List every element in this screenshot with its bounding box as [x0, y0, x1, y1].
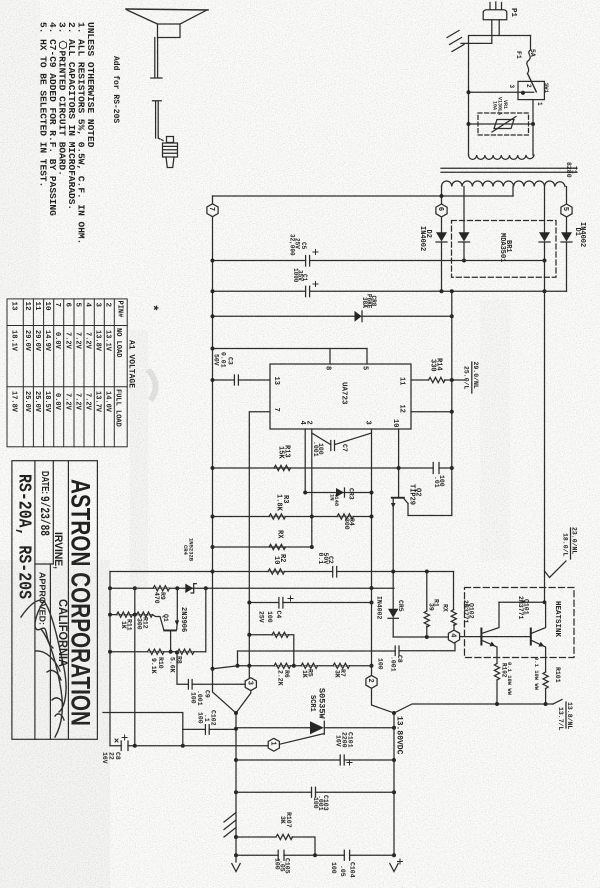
- fuse F1: [527, 36, 531, 74]
- wire rail to node 7: [213, 195, 514, 197]
- capacitor C1 1000/35V: [306, 286, 310, 297]
- node 3 hexagon: [245, 678, 256, 691]
- plug P1: [483, 2, 507, 43]
- earth ground (AC): [447, 31, 492, 52]
- wire R8 right vertical x=205.8: [205, 588, 207, 651]
- capacitor C4 100/25V: [279, 598, 283, 609]
- junction dot pin10/R13: [397, 466, 401, 470]
- junction dots VR1: [467, 122, 471, 126]
- junction dot collectors/23V: [543, 600, 547, 604]
- wire C3 line to pin 13: [213, 379, 271, 381]
- wire C4 line: [249, 602, 371, 604]
- wire R11/R12 row: [110, 615, 164, 630]
- junction dots BR1 outputs: [462, 259, 466, 263]
- node 7 hexagon: [207, 196, 218, 217]
- wire node3 to junction: [236, 691, 251, 713]
- wire R9/CR4 row: [110, 587, 394, 589]
- leader 23V label jog: [545, 561, 567, 578]
- junction dots on left spine: [211, 259, 215, 263]
- capacitor C103 .001/100: [312, 787, 316, 797]
- transistor Q102 2N3771: [480, 602, 499, 663]
- capacitor C7 .001/100 with leads: [312, 433, 372, 451]
- node 6 hexagon: [436, 204, 447, 217]
- resistor R5 1K: [301, 663, 318, 668]
- wire CR5 to node 4: [393, 636, 448, 638]
- resistor R10 9.1K: [148, 649, 164, 654]
- wire C6a/hex1 line y=745.8: [110, 745, 267, 747]
- wire pin8 stub: [329, 349, 331, 365]
- diode CR5 1N4002: [388, 609, 398, 637]
- resistor R6b 2.2K: [274, 663, 291, 668]
- capacitor C6 .01/100: [433, 463, 439, 474]
- wire R5/R7 row: [238, 665, 372, 667]
- scan smudge: [150, 372, 156, 398]
- output arrow right: [390, 864, 398, 872]
- wire pin 2 stub: [311, 429, 313, 547]
- note-3 hexagon symbol: [60, 41, 67, 49]
- diode BR1-b: [539, 187, 550, 243]
- wire pin 11 line with R14: [411, 379, 452, 381]
- junction dots x=394: [392, 711, 396, 715]
- wire bottom rail: [236, 854, 394, 856]
- transformer T1 core: [441, 168, 577, 172]
- node 1 hexagon: [267, 738, 279, 751]
- junction dots CR4 row: [108, 586, 112, 590]
- transistor Q101 2N3771: [530, 602, 546, 672]
- wire lower-left vertical x=236: [235, 713, 237, 862]
- wire C1 rail: [213, 290, 567, 292]
- wire output rail diag: [394, 704, 553, 713]
- resistor R11 1K: [117, 612, 133, 617]
- wire secondary left tap: [441, 187, 443, 205]
- wire leader 29.0/NL: [452, 379, 465, 381]
- transistor Q1 2N3906: [163, 588, 179, 651]
- resistor R13 15K: [274, 465, 291, 470]
- resistor R102 0.1 10W WW (vertical): [494, 664, 499, 707]
- wire pin 10 / Q2 base: [398, 429, 400, 497]
- wire spine link to R-row: [213, 666, 238, 669]
- junction dot RX/pin2: [310, 545, 314, 549]
- transformer T1 primary winding: [469, 124, 535, 159]
- wire pin5 stub: [366, 349, 368, 365]
- diode CR3 1N4148: [303, 488, 373, 497]
- capacitor C101 2200/16V: [340, 755, 344, 765]
- wire pins 8-5 strap rail: [213, 348, 368, 350]
- junction dots R11 row: [108, 613, 112, 617]
- capacitor C102 .1/100: [205, 725, 209, 735]
- wire C8 line: [238, 643, 456, 651]
- capacitor C9 .001/100: [188, 680, 192, 690]
- wire R2 rail: [110, 571, 454, 573]
- leader 13.8V label: [553, 700, 562, 705]
- resistor R1 39 (vertical): [424, 572, 429, 640]
- heatsink dashed box: [465, 588, 575, 658]
- capacitor C105 .05/100: [278, 850, 284, 860]
- junction dots R2 rail: [391, 570, 395, 574]
- output arrow left: [232, 864, 240, 872]
- title block border: [12, 461, 98, 740]
- wire C101 rail: [236, 759, 394, 761]
- resistor R9 470: [153, 586, 169, 591]
- transformer T1 secondary winding: [441, 181, 564, 187]
- wire R10/R8 row: [110, 651, 206, 653]
- wire output vertical x=394: [393, 713, 395, 855]
- wire CR8 rail: [213, 315, 452, 317]
- wire pin 3 stub: [371, 429, 373, 588]
- scan noise overlay: [0, 0, 1, 1]
- op-amp regulator U1 UA723 body: [270, 364, 411, 429]
- wire spine elbow to lower junction: [213, 669, 237, 713]
- voltage table A1 grid: [7, 299, 127, 447]
- wire AC loop: [469, 36, 531, 156]
- wire pin 7 line: [249, 412, 270, 678]
- resistor R12 300: [137, 612, 153, 617]
- node 4 hexagon: [448, 630, 459, 643]
- thyristor SCR1 S0535W: [236, 721, 394, 744]
- resistor R2 10: [268, 569, 285, 574]
- resistor R107 3K: [276, 834, 293, 839]
- resistor R7 3K: [333, 663, 350, 668]
- polarity plus marks: [115, 250, 403, 865]
- wire C103 rail: [236, 791, 394, 793]
- wire Q2 emitter down: [392, 509, 394, 609]
- varistor VR1: [478, 113, 529, 135]
- junction dots R10 row: [108, 650, 112, 654]
- capacitor C104 .05/100: [344, 850, 349, 860]
- wire R13 rail: [213, 467, 453, 469]
- transistor Q2 TIP29: [391, 497, 408, 509]
- junction dots 745 line: [133, 744, 137, 748]
- fraction bar 23.0/NL: [570, 528, 572, 559]
- capacitor C3 0.01/50V: [234, 375, 238, 385]
- wire 23V unregulated vertical: [544, 242, 546, 602]
- wire RX rail: [213, 546, 312, 548]
- wire stub line y=712.5: [103, 713, 183, 730]
- wire R6 row: [249, 635, 293, 666]
- diode CR8 P6KE/38A transient suppressor: [355, 311, 363, 322]
- wire row link vertical: [237, 651, 239, 666]
- wire C5 rail: [213, 260, 545, 262]
- switch SW1: [467, 74, 545, 125]
- chassis ground hatch: [224, 813, 236, 838]
- approved signature scrawl: [21, 600, 66, 737]
- wire left branch vertical x=110: [109, 572, 111, 746]
- wire C9 line: [177, 652, 245, 684]
- capacitor C2 0.1/50V: [333, 567, 337, 578]
- wire pin 4 stub: [304, 429, 306, 493]
- resistor R107 3K row: [236, 837, 315, 855]
- wire pin 12 line: [411, 411, 452, 413]
- node 2 hexagon: [366, 675, 377, 688]
- wire R3 rail: [213, 516, 372, 518]
- wire C102 line: [183, 728, 236, 730]
- junction dot R107 corner: [313, 853, 317, 857]
- junction dots R3 rail: [310, 515, 314, 519]
- wire VR1 rail: [469, 123, 534, 125]
- wire C102 riser: [182, 729, 184, 745]
- junction dots x=236: [234, 711, 238, 715]
- diode D2 1N4002: [436, 217, 447, 291]
- resistor R8 5.6K: [178, 649, 194, 654]
- resistor R6 2.2K: [272, 632, 289, 637]
- fraction bar 13.8/NL: [565, 702, 567, 728]
- bridge rectifier BR1 MDA3501 dashed box: [452, 221, 557, 278]
- zener diode CR4 1N5232B: [185, 584, 196, 593]
- fraction bar 29.0/NL: [471, 362, 473, 393]
- resistor RX: [269, 544, 286, 549]
- wire secondary center tap: [512, 187, 514, 197]
- wire node4 to driver bases: [460, 636, 531, 638]
- node 5 hexagon: [561, 187, 572, 217]
- wire R11 feed vertical x=134.8: [134, 588, 136, 746]
- resistor RX2 (vertical, to node 4): [451, 572, 456, 631]
- microphone plug connector: [153, 101, 178, 168]
- diode D1 1N4002: [561, 217, 572, 291]
- wire left spine x=212.5: [212, 217, 214, 669]
- capacitor C8 .001/100: [395, 646, 399, 656]
- capacitor C5 32,000/25V: [306, 256, 310, 267]
- resistor R101 0.1 10W WW (vertical): [543, 672, 548, 706]
- wire collectors tie: [499, 601, 546, 603]
- junction dots right feed: [450, 289, 454, 293]
- resistor R4 300: [337, 514, 354, 519]
- resistor R3 1.8K: [269, 514, 286, 519]
- wire right feed vertical x=451.8: [408, 291, 452, 515]
- wire node2 vertical: [372, 588, 395, 713]
- speaker LS1 (Add for RS-20S): [126, 9, 208, 78]
- diode BR1-a: [459, 187, 470, 261]
- junction dot center-tap rail: [440, 194, 444, 198]
- capacitor C6a 22/16V: [121, 741, 128, 751]
- resistor R14 330: [429, 377, 446, 382]
- junction dots row5: [236, 664, 240, 668]
